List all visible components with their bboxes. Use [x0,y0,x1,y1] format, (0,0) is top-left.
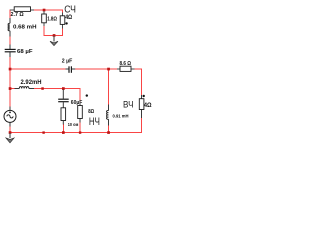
svg-text:8.6 Ω: 8.6 Ω [120,61,132,67]
svg-text:10 ом: 10 ом [68,122,79,128]
wire: VC speaker bottom to ground bus [141,118,143,134]
svg-text:68 µF: 68 µF [17,49,33,55]
svg-text:ВЧ: ВЧ [123,99,134,110]
wire: left bus between 68uF cap and source [9,57,11,108]
svg-text:0.91 mH: 0.91 mH [113,114,129,120]
wire: 1.8ohm branch bottom [43,26,45,36]
inductor L2 2.92 mH (horizontal, NC branch) [15,80,42,88]
speaker SC (midrange) 4 ohm [60,4,76,28]
AC source V1 [4,107,16,127]
wire: source bottom to ground bus [9,126,11,133]
wire: SC branch vertical top [62,10,64,13]
node bottom bus joint [42,131,44,133]
capacitor C2 2 uF (horizontal, middle branch) [62,59,75,73]
speaker NC (woofer) 8 ohm [78,94,100,128]
wire: NC branch from 2.92mH to NC corner [34,88,81,90]
node middle branch tap on left bus [9,68,12,71]
wire: NC speaker branch lower [79,122,81,133]
wire: 0.91mH branch lower [108,125,110,133]
svg-text:СЧ: СЧ [64,4,76,15]
inductor L3 0.91 mH (vertical) [107,105,129,126]
node 0.91mH tap on middle branch [107,68,110,71]
capacitor C3 60 uF (vertical) [58,90,82,108]
node at 2.7ohm / 1.8ohm junction [43,9,46,12]
inductor L1 0.68 mH (vertical on left bus) [8,18,37,37]
wire: 60uF branch lower (below 10ohm) [62,124,64,133]
wire: middle branch from left bus to 2uF [10,68,66,70]
svg-text:4Ω: 4Ω [144,102,152,109]
capacitor C1 68 uF (vertical on left bus) [5,45,34,58]
node NC branch tap on left bus [9,87,12,90]
resistor R2 1.8 ohm (vertical) [42,11,58,26]
node SC cell ground junction [53,34,56,37]
wire: top horizontal after 2.7ohm to SC corner [34,9,64,11]
node after 2.92mH coil [41,87,44,90]
resistor R4 10 ohm (vertical, below 60uF) [61,108,79,128]
svg-text:1.8Ω: 1.8Ω [47,16,57,22]
svg-text:8Ω: 8Ω [88,109,94,115]
wire: 1.8ohm branch top stub [43,10,45,12]
junction dots [9,9,110,134]
svg-text:НЧ: НЧ [89,116,100,128]
wire: 0.91mH branch upper [108,69,110,105]
wire: left bus upper segment [9,10,11,19]
wire: NC speaker branch upper [79,89,81,102]
svg-text:2.7 Ω: 2.7 Ω [11,12,25,18]
node 0.91mH bottom [107,131,110,134]
resistor R3 8.6 ohm (horizontal, middle branch) [117,61,135,72]
node NC speaker bottom [79,131,81,133]
svg-text:0.68 mH: 0.68 mH [13,24,37,30]
wire: left bus between coil and 68uF cap [9,36,11,45]
resistor R1 2.7 ohm (horizontal, top) [10,7,34,18]
wire: SC cell bottom horizontal [44,34,63,36]
node 60uF branch tap [62,87,65,90]
svg-text:2.92mH: 2.92mH [21,80,42,86]
svg-text:2 µF: 2 µF [62,59,73,65]
wire: middle branch 8.6ohm to right corner [135,68,143,70]
wire: right branch down to VC speaker [141,69,143,96]
svg-text:4Ω: 4Ω [65,15,72,21]
wire: middle branch 2uF to 8.6ohm [75,68,117,70]
node 60uF branch bottom [62,131,65,134]
ground (source) [6,133,14,143]
wire: NC branch from left bus to 2.92mH [10,88,15,90]
speaker VC (tweeter) 4 ohm [123,95,152,118]
ground (SC cell) [50,36,58,46]
wire: SC branch vertical bottom [62,28,64,36]
wire: bottom ground bus [10,132,142,134]
node source ground junction [9,131,12,134]
